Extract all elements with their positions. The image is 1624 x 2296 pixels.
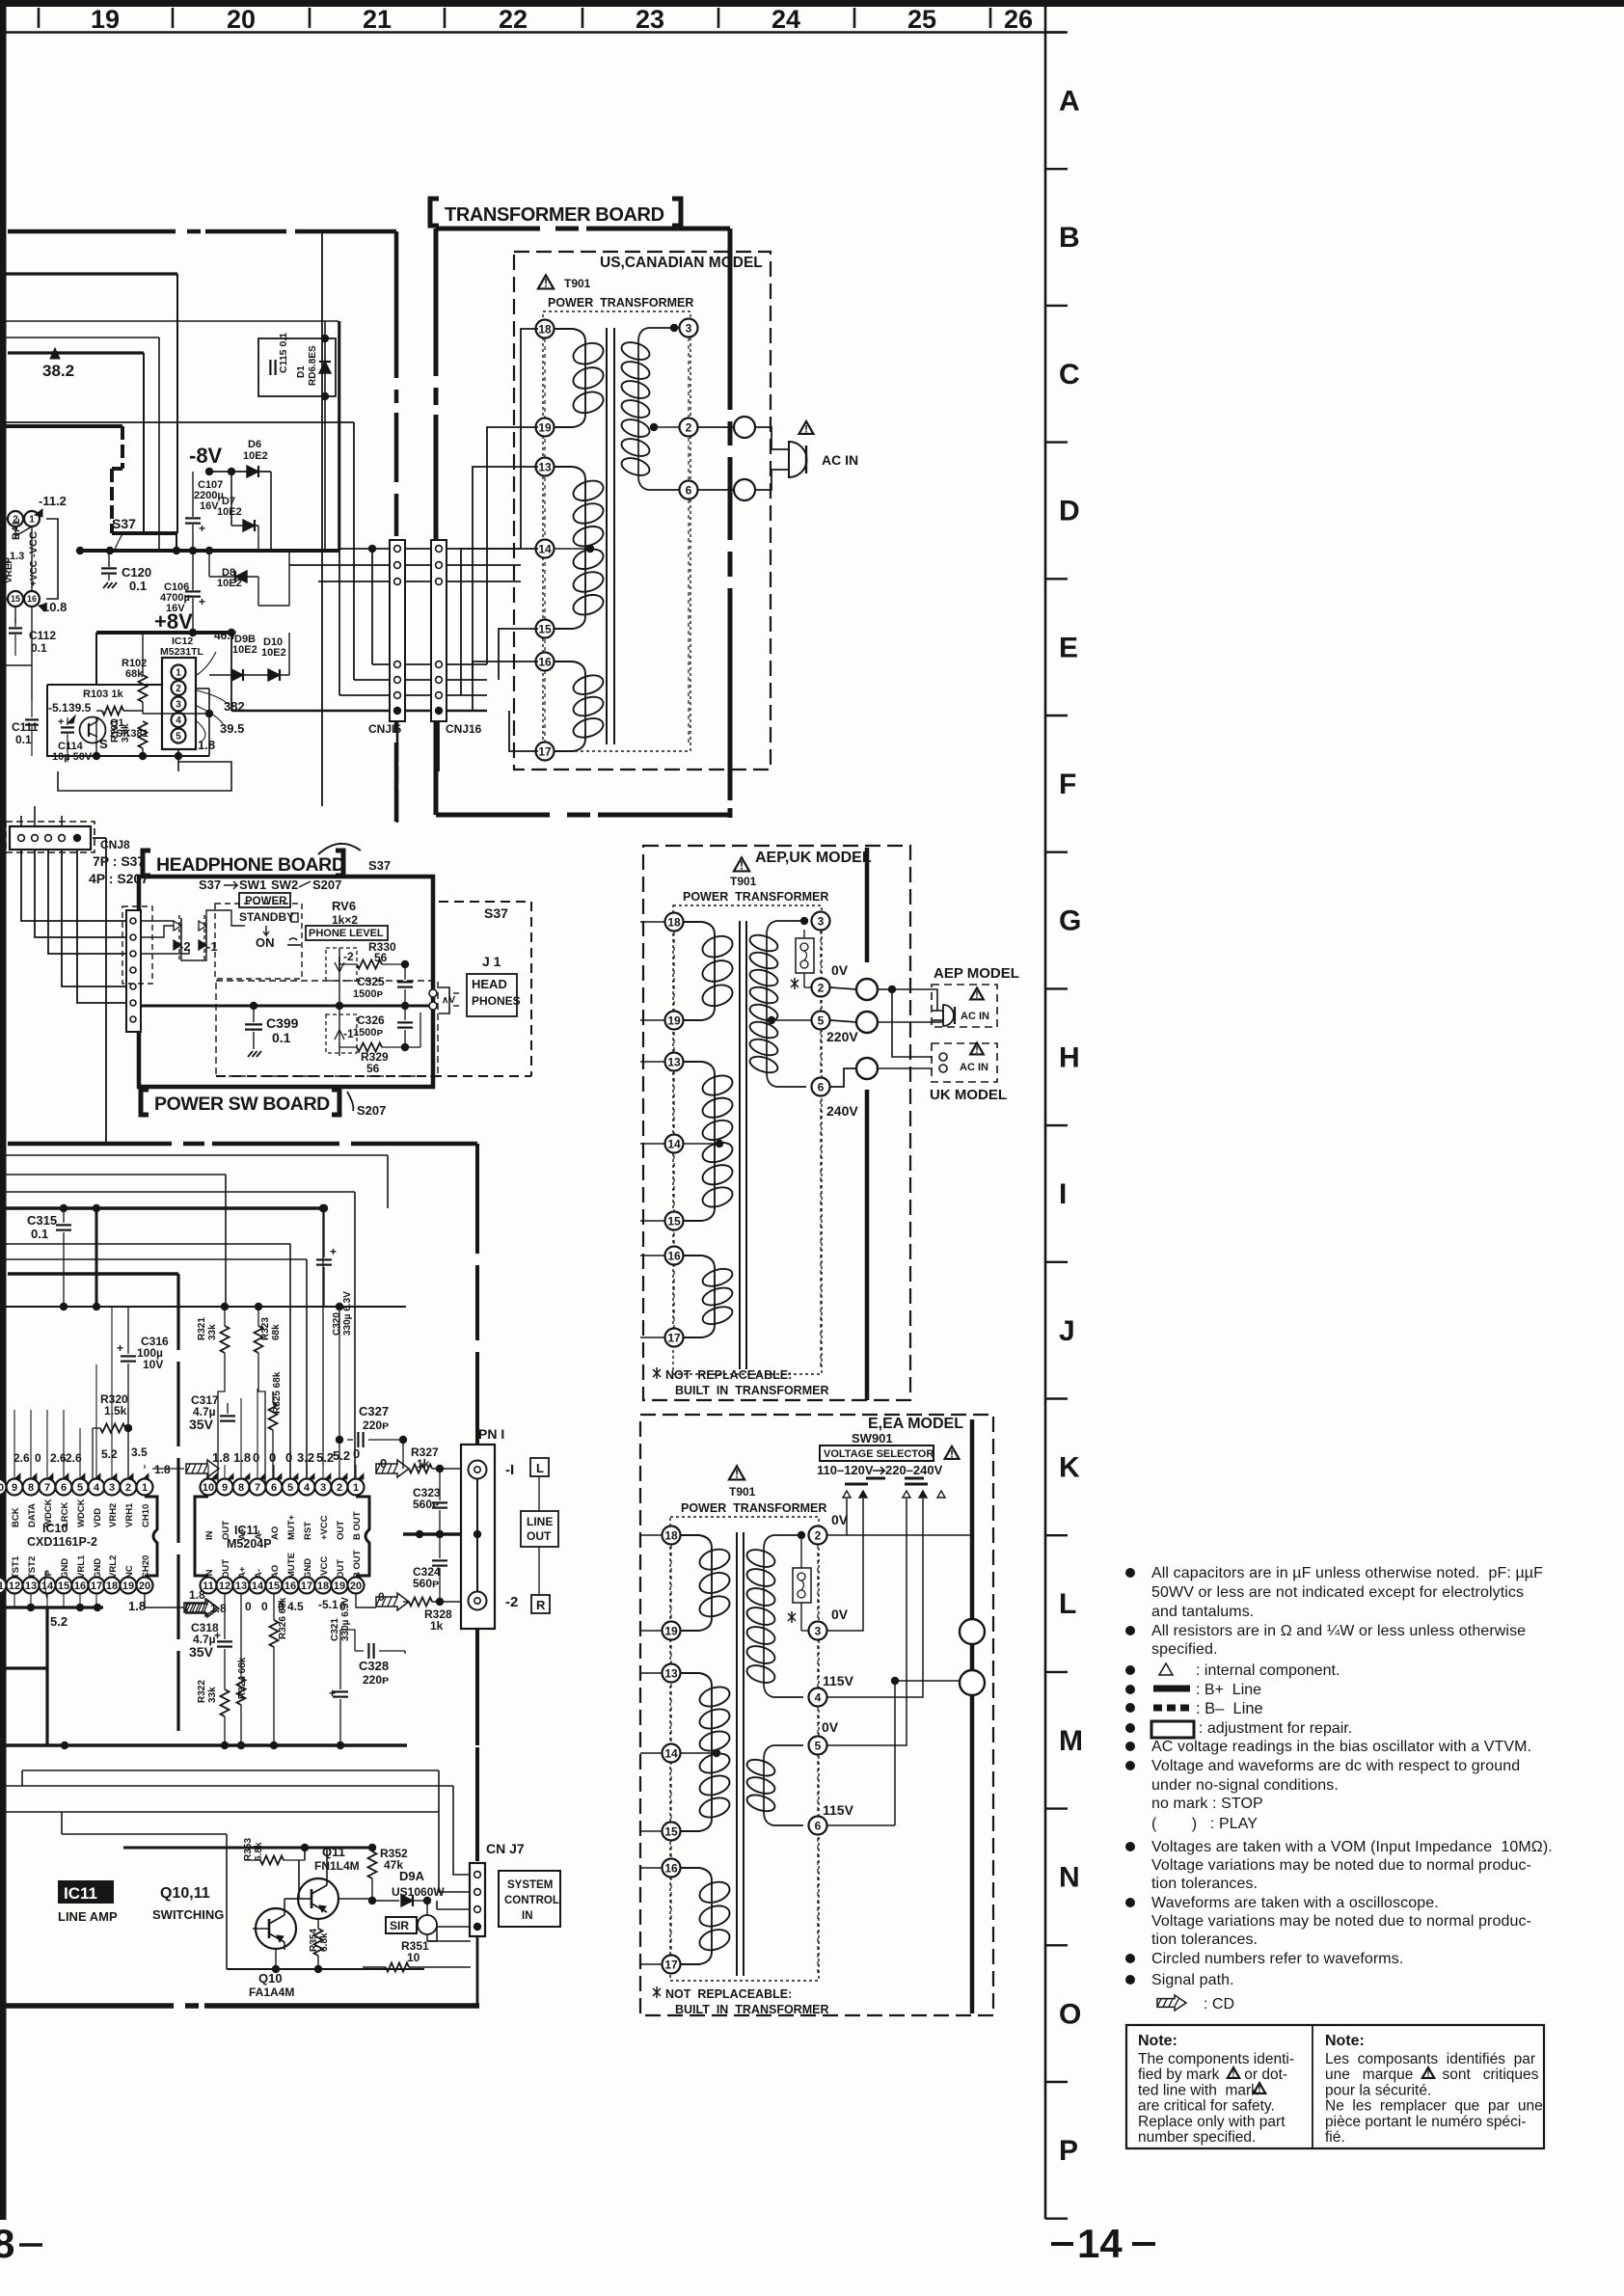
svg-text:S37: S37 bbox=[484, 905, 508, 921]
wires EEA pins left bbox=[640, 1534, 662, 1536]
svg-text:RST: RST bbox=[303, 1522, 313, 1540]
note boxes bbox=[1126, 2025, 1544, 2148]
svg-text:220ᴘ: 220ᴘ bbox=[363, 1673, 389, 1687]
svg-text:specified.: specified. bbox=[1151, 1641, 1218, 1658]
AEP UK dashed box bbox=[643, 846, 910, 1400]
svg-text:Circled numbers refer to wavef: Circled numbers refer to waveforms. bbox=[1151, 1951, 1403, 1967]
power sw dashed box inner bbox=[216, 981, 438, 1076]
svg-text:S207: S207 bbox=[357, 1103, 386, 1118]
svg-text:2.6: 2.6 bbox=[14, 1451, 30, 1465]
page number 14 bbox=[1051, 2242, 1073, 2246]
svg-text:M: M bbox=[1059, 1725, 1083, 1757]
svg-text:VOLTAGE SELECTOR: VOLTAGE SELECTOR bbox=[824, 1448, 934, 1460]
UK model dashed box bbox=[932, 1043, 997, 1082]
svg-text:NOT REPLACEABLE:: NOT REPLACEABLE: bbox=[665, 1987, 792, 2001]
dashed pin lines EEA bbox=[670, 1545, 672, 1955]
S37 dashed region right bbox=[439, 902, 531, 1076]
svg-text:33k: 33k bbox=[207, 1687, 218, 1703]
svg-text:19: 19 bbox=[538, 420, 552, 434]
svg-text:All capacitors are in µF unles: All capacitors are in µF unless otherwis… bbox=[1151, 1565, 1543, 1581]
svg-text:-1: -1 bbox=[206, 939, 218, 954]
wires into connectors bbox=[339, 548, 390, 550]
svg-text:15: 15 bbox=[664, 1824, 678, 1838]
wires into CNJ8 from above bbox=[20, 816, 22, 826]
-8V bus bbox=[77, 549, 339, 553]
svg-text:1: 1 bbox=[353, 1482, 359, 1494]
svg-text:15: 15 bbox=[667, 1214, 681, 1228]
svg-text:IN: IN bbox=[522, 1910, 533, 1922]
AEP model dashed box bbox=[932, 985, 997, 1027]
svg-text:AC IN: AC IN bbox=[822, 452, 858, 468]
svg-text:number specified.: number specified. bbox=[1138, 2129, 1256, 2146]
svg-text:AO: AO bbox=[270, 1565, 281, 1579]
svg-text:6: 6 bbox=[818, 1080, 825, 1094]
pin 2 US bbox=[680, 419, 698, 437]
svg-text:CNJ8: CNJ8 bbox=[100, 838, 130, 851]
svg-text:0.1: 0.1 bbox=[129, 579, 147, 593]
svg-text:CXD1161P-2: CXD1161P-2 bbox=[27, 1535, 97, 1549]
transformer secondary winding 16-17 US bbox=[554, 662, 585, 674]
svg-text:BCK: BCK bbox=[11, 1507, 21, 1527]
svg-text:4.5: 4.5 bbox=[287, 1600, 304, 1613]
svg-text:K: K bbox=[1059, 1452, 1080, 1484]
svg-text:B: B bbox=[1059, 222, 1080, 254]
grid column line bbox=[1044, 7, 1047, 2219]
svg-text:14: 14 bbox=[252, 1580, 264, 1592]
switch dashed box bbox=[215, 904, 302, 979]
svg-text:20: 20 bbox=[227, 5, 256, 34]
svg-text:NC: NC bbox=[124, 1565, 135, 1579]
svg-text:GND: GND bbox=[93, 1558, 103, 1579]
svg-text:10E2: 10E2 bbox=[217, 506, 242, 518]
svg-text:HEAD: HEAD bbox=[472, 977, 507, 991]
svg-text:10: 10 bbox=[203, 1482, 214, 1494]
svg-text:17: 17 bbox=[91, 1580, 102, 1592]
svg-text:G: G bbox=[1059, 905, 1081, 937]
svg-text:fied by mark or dot-: fied by mark or dot- bbox=[1138, 2066, 1287, 2083]
pin 3 AEP bbox=[812, 912, 830, 931]
svg-text:0: 0 bbox=[35, 1451, 41, 1465]
svg-text:8: 8 bbox=[0, 2221, 14, 2266]
svg-text:OUT: OUT bbox=[336, 1559, 346, 1579]
svg-text:8: 8 bbox=[238, 1482, 244, 1494]
bus 1355 bbox=[0, 1306, 406, 1308]
transformer primary winding US bbox=[638, 328, 679, 341]
svg-text:+: + bbox=[199, 595, 205, 608]
AEP winding 13-15 bbox=[683, 1062, 715, 1074]
svg-text:PHONE LEVEL: PHONE LEVEL bbox=[309, 928, 384, 939]
power transformer T901 dotted box US bbox=[543, 311, 690, 751]
AEP not replaceable note bbox=[653, 1369, 661, 1377]
svg-text:1.8: 1.8 bbox=[212, 1450, 230, 1465]
svg-text:5: 5 bbox=[818, 1013, 825, 1027]
svg-text:15: 15 bbox=[538, 622, 552, 635]
svg-text:19: 19 bbox=[334, 1580, 345, 1592]
svg-text:+: + bbox=[199, 522, 205, 535]
RV6 pot -1 bbox=[326, 1014, 357, 1053]
SIR box bbox=[386, 1917, 417, 1933]
svg-text:6.8k: 6.8k bbox=[254, 1842, 264, 1861]
svg-text:pour la sécurité.: pour la sécurité. bbox=[1325, 2082, 1431, 2098]
svg-text:0: 0 bbox=[353, 1446, 360, 1461]
wire rows below boundary bbox=[0, 1154, 388, 1156]
svg-text:+VCC: +VCC bbox=[29, 560, 40, 586]
svg-text:!: ! bbox=[1426, 2069, 1429, 2080]
svg-text:TST2: TST2 bbox=[27, 1556, 38, 1579]
svg-text:18: 18 bbox=[106, 1580, 118, 1592]
svg-text:+: + bbox=[117, 1341, 123, 1355]
svg-text:6: 6 bbox=[686, 483, 692, 497]
transformer secondary winding 18-19 US bbox=[554, 329, 585, 341]
svg-text:20: 20 bbox=[139, 1580, 150, 1592]
svg-text:14: 14 bbox=[1077, 2221, 1123, 2266]
svg-text:∧V: ∧V bbox=[442, 995, 455, 1006]
svg-text:VDD: VDD bbox=[93, 1508, 103, 1527]
svg-text:39.5: 39.5 bbox=[68, 701, 92, 715]
svg-text:BUILT IN TRANSFORMER: BUILT IN TRANSFORMER bbox=[675, 1384, 828, 1397]
svg-text:WDCK: WDCK bbox=[76, 1499, 87, 1527]
wires CNJ8 to headphone connector bbox=[21, 850, 126, 921]
svg-text:MUT+: MUT+ bbox=[286, 1514, 297, 1540]
svg-text:9: 9 bbox=[12, 1482, 17, 1494]
svg-text:VRL2: VRL2 bbox=[108, 1555, 119, 1579]
svg-text:MUTE: MUTE bbox=[286, 1553, 297, 1579]
svg-text:3.2: 3.2 bbox=[297, 1450, 314, 1465]
svg-text:RV6: RV6 bbox=[332, 899, 356, 913]
wires IC11 to PN1 bbox=[356, 1594, 376, 1607]
svg-text:!: ! bbox=[975, 1045, 978, 1056]
legend internal component bbox=[1159, 1663, 1173, 1675]
svg-text:M5231TL: M5231TL bbox=[160, 646, 204, 658]
svg-text:10E2: 10E2 bbox=[261, 647, 286, 659]
svg-text:0V: 0V bbox=[831, 1607, 849, 1622]
svg-text:R321: R321 bbox=[197, 1317, 207, 1340]
IC10 CXD1161P-2 bbox=[145, 1497, 157, 1576]
svg-text:P: P bbox=[1059, 2135, 1078, 2167]
pin 17 AEP bbox=[665, 1329, 684, 1347]
EEA winding 18-19 bbox=[680, 1535, 712, 1548]
title HEADPHONE BOARD bbox=[143, 851, 150, 876]
POWER box bbox=[239, 893, 290, 907]
VOLTAGE SELECTOR box bbox=[820, 1445, 934, 1461]
svg-text:7P : S37: 7P : S37 bbox=[93, 853, 145, 869]
svg-text:VRH1: VRH1 bbox=[124, 1502, 135, 1527]
svg-text:+: + bbox=[330, 1245, 337, 1258]
svg-text:1: 1 bbox=[176, 668, 181, 679]
svg-text:560ᴘ: 560ᴘ bbox=[413, 1498, 439, 1511]
svg-text:C320: C320 bbox=[332, 1312, 342, 1336]
signal path CD arrow bbox=[1157, 1995, 1186, 2011]
svg-text:GND: GND bbox=[60, 1558, 70, 1579]
svg-text:17: 17 bbox=[538, 744, 552, 758]
AC plug US bbox=[771, 448, 789, 450]
pin 19 EEA bbox=[663, 1622, 681, 1640]
svg-text:POWER TRANSFORMER: POWER TRANSFORMER bbox=[683, 890, 828, 904]
svg-text:!: ! bbox=[544, 277, 548, 290]
svg-text:4: 4 bbox=[94, 1482, 100, 1494]
svg-text:16: 16 bbox=[664, 1861, 678, 1875]
svg-text:SW1: SW1 bbox=[239, 878, 266, 892]
wires into CNJ7 bbox=[453, 1786, 470, 1875]
svg-text:19: 19 bbox=[91, 5, 120, 34]
svg-text:IC10: IC10 bbox=[42, 1522, 68, 1535]
svg-text:-VCC: -VCC bbox=[319, 1556, 330, 1579]
labels IC11 LINE AMP bbox=[58, 1880, 114, 1904]
wires AEP pins left bbox=[640, 921, 664, 923]
pin 6 EEA bbox=[809, 1817, 827, 1835]
connector CNJ15 bbox=[390, 540, 405, 721]
svg-text:OUT: OUT bbox=[527, 1529, 552, 1543]
svg-text:L: L bbox=[536, 1461, 544, 1475]
pin 2 AEP bbox=[812, 979, 830, 997]
warning triangle EEA T901 bbox=[729, 1466, 744, 1479]
svg-text:Voltage variations may be note: Voltage variations may be noted due to n… bbox=[1151, 1913, 1531, 1930]
svg-text:-11.2: -11.2 bbox=[39, 494, 67, 508]
svg-text:S: S bbox=[99, 737, 108, 751]
svg-text:AEP MODEL: AEP MODEL bbox=[934, 965, 1019, 982]
svg-text:1.8: 1.8 bbox=[154, 1463, 171, 1476]
svg-text:ON: ON bbox=[256, 935, 275, 950]
svg-text:330µ 6.3V: 330µ 6.3V bbox=[342, 1291, 353, 1336]
svg-text:SW901: SW901 bbox=[852, 1431, 893, 1445]
AEP model wires to plugs bbox=[878, 988, 892, 990]
svg-text:R: R bbox=[536, 1598, 546, 1612]
pin 15 AEP bbox=[665, 1212, 684, 1230]
svg-text:A+: A+ bbox=[237, 1566, 248, 1579]
svg-text:S37: S37 bbox=[368, 858, 391, 873]
svg-text:+VCC: +VCC bbox=[319, 1515, 330, 1540]
thick bus 1253 bbox=[0, 1206, 324, 1209]
svg-text:39.5: 39.5 bbox=[220, 721, 244, 736]
svg-text:50WV or less are not indicated: 50WV or less are not indicated except fo… bbox=[1151, 1584, 1524, 1601]
pin 3 EEA bbox=[809, 1622, 827, 1640]
svg-text:1.3: 1.3 bbox=[10, 551, 24, 562]
svg-text:D1: D1 bbox=[296, 365, 307, 378]
AEP winding 16-17 bbox=[683, 1256, 715, 1268]
svg-text:VRH2: VRH2 bbox=[108, 1503, 119, 1527]
svg-text:13: 13 bbox=[538, 460, 552, 473]
svg-text:56: 56 bbox=[366, 1062, 380, 1075]
svg-text:18: 18 bbox=[667, 915, 681, 929]
svg-text:BAL: BAL bbox=[11, 518, 22, 540]
svg-text:C111: C111 bbox=[12, 720, 39, 734]
IC10 bottom wires bus bbox=[0, 1606, 103, 1608]
pin 14 tap US bbox=[536, 540, 555, 558]
pin 5 EEA bbox=[809, 1737, 827, 1755]
svg-text:CNJ16: CNJ16 bbox=[446, 722, 482, 736]
svg-text:T901: T901 bbox=[729, 1485, 756, 1499]
svg-text:SWITCHING: SWITCHING bbox=[152, 1907, 224, 1922]
transformer core US bbox=[606, 328, 608, 744]
svg-text:38.2: 38.2 bbox=[42, 362, 74, 380]
svg-text:2: 2 bbox=[818, 981, 825, 994]
svg-text:110–120V: 110–120V bbox=[817, 1463, 874, 1477]
svg-text:24: 24 bbox=[771, 5, 800, 34]
pin 3 US bbox=[680, 319, 698, 338]
main board boundary (dash-dot) bbox=[8, 230, 176, 234]
svg-text:-VCC: -VCC bbox=[28, 531, 40, 557]
svg-text:2: 2 bbox=[4, 556, 10, 568]
svg-text:16: 16 bbox=[538, 655, 552, 668]
svg-text:SW2: SW2 bbox=[271, 878, 298, 892]
svg-text:SYSTEM: SYSTEM bbox=[507, 1879, 553, 1891]
CH20 wire to arrow bbox=[145, 1594, 184, 1607]
svg-text:13: 13 bbox=[667, 1055, 681, 1068]
EEA primary winding lower bbox=[764, 1745, 803, 1759]
svg-text:115V: 115V bbox=[823, 1802, 854, 1818]
thick bus 1810 bbox=[0, 1743, 407, 1746]
svg-text:46.7: 46.7 bbox=[214, 629, 237, 642]
svg-text:10E2: 10E2 bbox=[232, 644, 257, 656]
svg-text:15: 15 bbox=[268, 1580, 280, 1592]
svg-text:C: C bbox=[1059, 359, 1080, 391]
svg-text:+: + bbox=[58, 716, 64, 728]
pin 16 AEP bbox=[665, 1247, 684, 1265]
svg-text:12: 12 bbox=[219, 1580, 230, 1592]
svg-text:240V: 240V bbox=[826, 1103, 858, 1119]
svg-text:5.2: 5.2 bbox=[316, 1450, 334, 1465]
svg-text:( ) : PLAY: ( ) : PLAY bbox=[1151, 1816, 1258, 1832]
svg-text:13: 13 bbox=[235, 1580, 247, 1592]
svg-text:SIR: SIR bbox=[390, 1919, 409, 1932]
svg-text:14: 14 bbox=[538, 542, 552, 555]
IC10 top pin wires bbox=[14, 1410, 15, 1478]
svg-text:-2: -2 bbox=[343, 950, 354, 963]
svg-text:CONTROL: CONTROL bbox=[504, 1895, 559, 1906]
dashed bottom headphone bbox=[216, 1075, 531, 1077]
svg-text:-5.1: -5.1 bbox=[48, 701, 68, 715]
thick feed to Q11 bbox=[123, 1847, 372, 1850]
svg-text:7: 7 bbox=[255, 1482, 260, 1494]
svg-text:: CD: : CD bbox=[1204, 1996, 1234, 2012]
svg-text:1.8: 1.8 bbox=[233, 1450, 251, 1465]
boundary dash down x185 bbox=[176, 1274, 179, 1350]
svg-text:13: 13 bbox=[664, 1666, 678, 1680]
svg-text:: internal component.: : internal component. bbox=[1196, 1662, 1340, 1679]
EEA connector circles bbox=[971, 1535, 973, 1619]
wire stub below CNJ15/16 bbox=[396, 721, 399, 762]
svg-text:: B– Line: : B– Line bbox=[1196, 1700, 1263, 1717]
pin 2 EEA bbox=[809, 1526, 827, 1545]
pin 15 EEA bbox=[663, 1823, 681, 1841]
svg-text:T901: T901 bbox=[730, 875, 757, 888]
svg-text:14: 14 bbox=[667, 1137, 681, 1150]
svg-text:25: 25 bbox=[907, 5, 936, 34]
svg-text:Note:: Note: bbox=[1138, 2033, 1177, 2049]
EEA winding 13-15 bbox=[680, 1673, 712, 1686]
svg-text:1: 1 bbox=[29, 515, 35, 526]
svg-text:B OUT: B OUT bbox=[352, 1511, 363, 1540]
dashed pin lines AEP bbox=[673, 932, 675, 1328]
svg-text:18: 18 bbox=[664, 1528, 678, 1542]
svg-text:21: 21 bbox=[363, 5, 392, 34]
wires US transformer to connectors bbox=[521, 329, 538, 549]
pin 16 EEA bbox=[663, 1859, 681, 1877]
svg-text:R326 68k: R326 68k bbox=[278, 1597, 288, 1639]
svg-text:R103 1k: R103 1k bbox=[83, 689, 123, 700]
svg-text:E,EA MODEL: E,EA MODEL bbox=[868, 1416, 963, 1432]
svg-text:C112: C112 bbox=[29, 629, 56, 642]
SYSTEM CONTROL IN box bbox=[499, 1871, 560, 1927]
svg-text:no mark : STOP: no mark : STOP bbox=[1151, 1796, 1263, 1812]
svg-text:6: 6 bbox=[815, 1819, 822, 1832]
wire bundle left of IC12 bbox=[0, 576, 8, 578]
svg-text:22: 22 bbox=[499, 5, 528, 34]
pin 18 AEP bbox=[665, 913, 684, 932]
CNJ8 connector horizontal bbox=[6, 822, 95, 852]
svg-text:C328: C328 bbox=[359, 1659, 389, 1673]
svg-text:are critical for safety.: are critical for safety. bbox=[1138, 2098, 1275, 2115]
pin 6 AEP bbox=[812, 1078, 830, 1096]
svg-text:5: 5 bbox=[176, 732, 181, 743]
svg-text:RD6.8ES: RD6.8ES bbox=[308, 345, 318, 386]
svg-text:-I: -I bbox=[505, 1462, 514, 1478]
CNJ7 bottom stub bbox=[476, 1936, 479, 2006]
pin 17 US bbox=[536, 743, 555, 761]
svg-text:16: 16 bbox=[74, 1580, 86, 1592]
svg-text:13: 13 bbox=[25, 1580, 37, 1592]
svg-text:The components identi-: The components identi- bbox=[1138, 2051, 1294, 2067]
svg-text:S37: S37 bbox=[199, 878, 221, 892]
svg-text:C326: C326 bbox=[357, 1013, 385, 1027]
transformer dotted box EEA bbox=[670, 1517, 819, 1981]
svg-text:68k: 68k bbox=[271, 1324, 282, 1340]
svg-text:CN J7: CN J7 bbox=[486, 1841, 525, 1856]
svg-text:+8V: +8V bbox=[154, 609, 193, 634]
headphone board outline bbox=[139, 877, 433, 1087]
svg-text:330µ 6.3V: 330µ 6.3V bbox=[340, 1597, 351, 1641]
svg-text:M5204P: M5204P bbox=[227, 1537, 272, 1551]
legend B- line bbox=[1153, 1705, 1190, 1712]
svg-text:220V: 220V bbox=[826, 1029, 858, 1044]
svg-text:2: 2 bbox=[815, 1528, 822, 1542]
svg-text:A-: A- bbox=[254, 1569, 264, 1579]
svg-text:5.2: 5.2 bbox=[333, 1448, 350, 1463]
svg-text:0: 0 bbox=[285, 1450, 292, 1465]
svg-text:Ne les remplacer que par: Ne les remplacer que par une bbox=[1325, 2098, 1543, 2115]
connector CNJ16 bbox=[431, 540, 447, 721]
svg-text:1.8: 1.8 bbox=[189, 1588, 205, 1602]
diode D1 RD6.8ES bbox=[324, 321, 326, 415]
transistor Q1 2SK381 bbox=[80, 717, 106, 743]
svg-text:Voltages are taken with a VOM: Voltages are taken with a VOM (Input Imp… bbox=[1151, 1839, 1553, 1855]
svg-text:3.3k: 3.3k bbox=[121, 723, 131, 743]
title POWER SW BOARD bbox=[141, 1090, 149, 1115]
svg-text:0V: 0V bbox=[831, 962, 849, 978]
svg-text:R354: R354 bbox=[309, 1929, 319, 1952]
svg-text:-8V: -8V bbox=[189, 444, 223, 468]
svg-text:Q10: Q10 bbox=[258, 1971, 283, 1985]
svg-text:1.8: 1.8 bbox=[198, 738, 215, 752]
svg-text:tion tolerances.: tion tolerances. bbox=[1151, 1876, 1258, 1892]
IC11 bottom arrow bbox=[186, 1600, 219, 1617]
pin 18 US bbox=[536, 320, 555, 338]
svg-text:LINE: LINE bbox=[527, 1515, 553, 1528]
svg-text:T901: T901 bbox=[564, 277, 591, 290]
wire B- dashed upper bbox=[0, 424, 122, 428]
svg-text:19: 19 bbox=[667, 1013, 681, 1027]
svg-text:3: 3 bbox=[320, 1482, 326, 1494]
svg-text:16: 16 bbox=[284, 1580, 296, 1592]
R box bbox=[531, 1595, 550, 1613]
pin 5 AEP bbox=[812, 1012, 830, 1030]
svg-text:AC IN: AC IN bbox=[961, 1011, 989, 1022]
svg-text:19: 19 bbox=[664, 1624, 678, 1637]
svg-text:C120: C120 bbox=[122, 565, 151, 580]
svg-text:6: 6 bbox=[271, 1482, 277, 1494]
svg-text:O: O bbox=[1059, 1998, 1081, 2030]
selector switch symbols bbox=[845, 1483, 868, 1486]
